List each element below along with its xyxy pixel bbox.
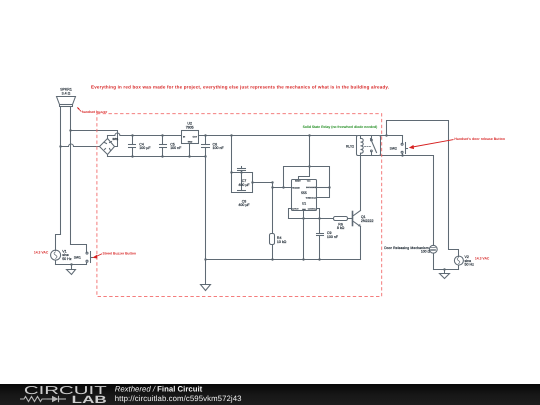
node U1 gnd rail	[302, 258, 304, 260]
svg-text:BR1: BR1	[113, 137, 119, 141]
node SW2 bottom	[401, 154, 403, 156]
svg-text:GND: GND	[188, 140, 193, 143]
svg-text:DISCHARGE: DISCHARGE	[306, 186, 317, 189]
svg-text:100 nF: 100 nF	[327, 235, 339, 239]
node right gnd tap	[443, 268, 445, 270]
svg-text:RESET: RESET	[295, 180, 301, 183]
wire V1 top jog to speaker left lead	[56, 235, 61, 251]
wire collector to relay coil	[360, 156, 362, 211]
svg-text:TRIGGER: TRIGGER	[292, 187, 300, 190]
svg-text:CONTROL: CONTROL	[308, 208, 316, 211]
door releasing mechanism M1	[429, 245, 437, 253]
svg-text:8 kΩ: 8 kΩ	[337, 226, 345, 230]
wire threshold bracket	[310, 167, 330, 198]
node ground rail tap	[204, 258, 206, 260]
svg-text:100 nF: 100 nF	[170, 146, 182, 150]
wire loop right edge	[252, 173, 254, 193]
node discharge joint	[328, 186, 330, 188]
wire trigger line	[273, 187, 292, 189]
svg-text:Street Buzzer Button: Street Buzzer Button	[103, 252, 137, 256]
voltage source V1	[51, 250, 61, 260]
node C9 rail	[318, 258, 320, 260]
node C4 bottom	[131, 155, 133, 157]
svg-text:2N2222: 2N2222	[361, 219, 374, 223]
node C5 top	[161, 134, 163, 136]
wire loop bottom edge	[232, 192, 253, 194]
wire U1 gnd drop	[303, 211, 305, 260]
wire V1 bottom	[55, 261, 57, 265]
wire speaker right lead	[70, 107, 72, 245]
relay RLY2	[357, 136, 381, 156]
wire bottom ground rail	[206, 259, 361, 261]
svg-text:Solid State Relay (no freewhee: Solid State Relay (no freewheel diode ne…	[303, 125, 378, 129]
capacitor C4	[129, 136, 136, 157]
svg-text:7805: 7805	[186, 125, 194, 129]
node cap block exit	[251, 181, 253, 183]
svg-text:555: 555	[301, 191, 307, 195]
node C6 bottom / rail end	[204, 155, 206, 157]
node C5 bottom	[161, 155, 163, 157]
capacitor C6	[202, 136, 210, 157]
node relay top tee	[385, 134, 387, 136]
wire output line	[289, 218, 334, 220]
capacitor C9	[317, 234, 324, 260]
node left-lead bottom tap	[59, 145, 61, 147]
wire C7C8 branch from +rail	[231, 136, 233, 193]
wire DC + rail with hop over AC feed	[108, 133, 182, 136]
node C4 top	[131, 134, 133, 136]
node loop cap lead	[240, 171, 242, 173]
node trigger tap	[271, 186, 273, 188]
wire AC bottom tap with hop	[61, 144, 100, 147]
wire right lead jog to SW1	[71, 245, 87, 253]
node output gnd crossing	[302, 217, 304, 219]
ground right	[440, 274, 450, 279]
switch SW2	[401, 136, 407, 156]
op-amp U1 555 timer box	[292, 180, 317, 211]
wire DC + rail right of U2	[199, 135, 357, 137]
wire U2 GND stub	[189, 144, 191, 157]
node reset bracket joint	[282, 186, 284, 188]
arrow handset buzzer	[77, 107, 81, 112]
svg-text:400 µF: 400 µF	[238, 203, 250, 207]
transistor Q1	[353, 211, 361, 227]
wire DC - rail	[108, 156, 206, 158]
node right-lead top tap	[69, 129, 71, 131]
svg-text:10 kΩ: 10 kΩ	[277, 240, 287, 244]
arrow handset door release	[409, 140, 454, 150]
svg-text:Handset's door release Button: Handset's door release Button	[454, 137, 505, 141]
svg-text:Everything in red box was made: Everything in red box was made for the p…	[91, 85, 389, 90]
capacitor C8	[238, 191, 246, 193]
wire left gnd stem	[71, 265, 73, 270]
node U2 gnd	[188, 155, 190, 157]
node output control crossing	[318, 217, 320, 219]
ground main	[201, 285, 211, 291]
svg-text:Rexthered / Final Circuit: Rexthered / Final Circuit	[115, 384, 203, 393]
wire AC top tap	[71, 131, 118, 147]
wire right bottom return	[434, 269, 459, 271]
node C6 top	[204, 134, 206, 136]
wire R4 column lower	[272, 245, 274, 260]
svg-text:LAB: LAB	[72, 394, 108, 405]
regulator U2 7805	[182, 131, 199, 144]
node loop left	[230, 171, 232, 173]
speaker SPKR1	[57, 97, 76, 107]
svg-text:http://circuitlab.com/c595vkm5: http://circuitlab.com/c595vkm572j43	[115, 394, 242, 403]
wire discharge stub	[317, 187, 330, 189]
arrow street buzzer	[92, 254, 102, 259]
node R4 top	[271, 181, 273, 183]
wire control drop	[317, 209, 320, 234]
svg-text:50 Hz: 50 Hz	[465, 263, 475, 267]
wire bridge bottom stub	[107, 155, 109, 157]
svg-text:100 µF: 100 µF	[139, 146, 151, 150]
svg-text:OUTPUT: OUTPUT	[292, 208, 299, 211]
svg-text:100 Ω: 100 Ω	[421, 249, 431, 253]
wire output bracket	[289, 209, 292, 219]
node C7C8 branch	[230, 134, 232, 136]
wire AC bottom return	[56, 264, 87, 266]
svg-text:THRESHOLD: THRESHOLD	[306, 197, 317, 200]
svg-text:3.4 Ω: 3.4 Ω	[62, 91, 71, 95]
resistor R4	[270, 234, 275, 245]
svg-text:50 Hz: 50 Hz	[62, 257, 72, 261]
wire emitter to ground rail	[360, 227, 362, 260]
wire up and over to V2	[387, 121, 459, 257]
wire C7 top link	[232, 172, 253, 174]
voltage source V2	[454, 256, 463, 265]
wire relay NO contact to door mech	[381, 156, 434, 246]
red project box	[97, 114, 382, 297]
wire reset bracket	[284, 167, 310, 188]
node VCC mid	[308, 165, 310, 167]
bridge rectifier BR1	[100, 139, 115, 155]
wire R6 to base	[348, 218, 353, 220]
node left gnd tap	[70, 263, 72, 265]
svg-text:RLY2: RLY2	[346, 145, 354, 149]
ground left	[67, 270, 76, 275]
svg-text:SW2: SW2	[390, 147, 397, 151]
capacitor C5	[160, 136, 167, 157]
svg-text:100 nF: 100 nF	[213, 146, 225, 150]
wire cap block to R4 node	[253, 182, 273, 184]
wire bridge top stub to +rail	[107, 136, 109, 139]
svg-text:SW1: SW1	[74, 255, 81, 259]
wire R4 column upper	[272, 183, 274, 234]
wire mech bottom	[433, 254, 435, 270]
resistor R6	[334, 217, 348, 221]
node R4 bottom	[271, 258, 273, 260]
svg-text:handset buzzer: handset buzzer	[82, 110, 108, 114]
wire V2 bottom	[458, 266, 460, 270]
svg-text:400 µF: 400 µF	[238, 183, 250, 187]
wire speaker left lead	[60, 107, 62, 235]
wire main ground drop	[205, 157, 207, 285]
capacitor C7	[238, 167, 246, 191]
wire right gnd stem	[444, 270, 446, 274]
svg-text:14.3 VAC: 14.3 VAC	[34, 250, 49, 254]
wire VCC drop from rail	[299, 136, 310, 180]
switch SW1	[86, 252, 93, 265]
node VCC rail tap	[308, 134, 310, 136]
svg-text:U1: U1	[302, 202, 306, 206]
svg-text:14.3 VAC: 14.3 VAC	[475, 256, 490, 260]
svg-text:OUT: OUT	[193, 135, 198, 138]
wire relay common to V2 top	[381, 135, 403, 137]
